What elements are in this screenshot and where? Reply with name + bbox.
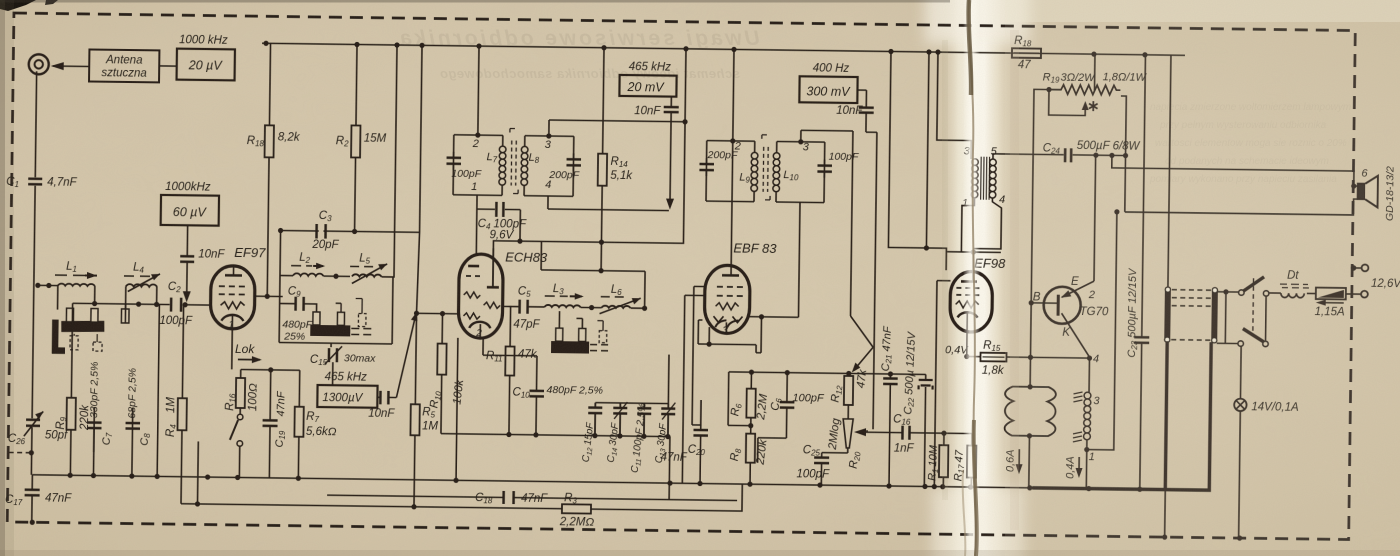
ECH83 grid line to L3: [503, 305, 519, 307]
variable capacitor C15: [330, 343, 332, 347]
fuse 1,15A: [1316, 288, 1346, 300]
capacitor C8: [131, 423, 134, 476]
crease band under schematic: [938, 0, 1018, 556]
padder black rod: [551, 341, 589, 353]
right page slightly lighter: [1005, 0, 1400, 556]
EF97 plate feed vertical with R18a: [267, 157, 269, 296]
vibrator block left bar: [1164, 288, 1171, 341]
capacitor 10nF (465kHz): [664, 107, 679, 112]
capacitor C9: [280, 302, 295, 304]
EF98 left stubs: [934, 281, 950, 487]
R18b feed corner down to block: [1168, 55, 1171, 287]
ECH83 cathode vertical to bus: [456, 338, 458, 480]
soft shading left of crease: [942, 40, 948, 500]
resistor R5: [410, 404, 419, 435]
capacitor C21: [889, 374, 891, 377]
output transformer windings: [971, 159, 978, 198]
IF2 core dashed lines: [763, 147, 768, 192]
Lok line: [241, 368, 300, 371]
winding L8: [521, 146, 528, 185]
generator box 300mV: [813, 62, 850, 74]
coil L1: [38, 284, 58, 286]
IF transformer 2 tank right: [776, 141, 825, 202]
IF1 pin4 line down and right: [548, 196, 669, 211]
capacitor C19: [269, 370, 272, 419]
resistor R11: [509, 307, 512, 347]
top right lighter band: [1000, 0, 1400, 22]
choke Dt: [1269, 292, 1281, 294]
node 4 down to filter choke: [1088, 358, 1090, 392]
R9 hang from grid line: [71, 303, 72, 397]
capacitor 100pF (IF1 left): [446, 158, 461, 164]
speaker: [1358, 184, 1366, 200]
AVC node between R6 R8: [750, 418, 752, 434]
thick right part of ground bus: [1032, 340, 1211, 490]
transformer core lines: [981, 157, 990, 200]
resistor R10: [441, 314, 443, 344]
IF transformer 1 tank left: [453, 135, 503, 196]
L4 right lead down to bus: [157, 304, 159, 476]
dashed slug right: [358, 314, 366, 327]
EBF83 right diode wire to IF2 pin4: [749, 316, 798, 319]
C3 line: [281, 231, 420, 233]
generator box 20uV: [177, 49, 235, 81]
capacitor C6: [786, 373, 788, 401]
crease shadow line: [969, 0, 976, 556]
EF97 plate wire right: [255, 295, 283, 297]
rheostat R19 with 1.8ohm: [1046, 87, 1051, 92]
capacitor C7: [92, 422, 95, 475]
transformer pin5 line with C24: [993, 154, 1064, 160]
tube EF97: [210, 266, 255, 330]
IF2 pin2 feed from rail: [733, 49, 734, 140]
capacitor C20: [700, 400, 702, 429]
capacitor C4: [476, 209, 520, 241]
resistor R4: [182, 305, 183, 398]
R3 value label: [559, 492, 595, 528]
capacitor C22 electrolytic: [925, 374, 927, 378]
EF98 plate line: [946, 251, 1000, 254]
variable capacitor C26: [26, 420, 40, 426]
capacitor 200pF (IF1 right): [566, 159, 581, 165]
trimmer C11: [643, 403, 645, 436]
oscillator tank loop: [279, 276, 393, 344]
generator box 1300uV: [325, 371, 368, 384]
capacitor C10: [536, 356, 538, 390]
generator box 60uV: [161, 195, 219, 226]
winding L9: [751, 152, 758, 191]
secondary bottom line with R3: [181, 477, 742, 511]
ferrite L-bar: [52, 320, 65, 354]
resistor R7: [298, 370, 300, 406]
top dark hairline: [0, 0, 950, 3]
transistor TG70: [1043, 287, 1080, 324]
10nF coupling from 1300uV box: [377, 396, 396, 398]
dashed link to border: [9, 451, 31, 453]
IF1 pin2 to rail feed: [478, 46, 479, 135]
wire box to generator box: [159, 65, 176, 67]
capacitor 10nF below 60uV box: [186, 225, 188, 255]
black page corner marks top-left: [0, 0, 36, 11]
L4 slug: [121, 309, 129, 323]
trimmer C12: [588, 403, 602, 436]
base chain vertical: [1030, 89, 1049, 387]
trimmer top line: [595, 354, 669, 404]
IF transformer 2 tank left: [706, 141, 755, 202]
capacitor 10nF (400Hz): [857, 90, 867, 132]
EBF83 internals: [722, 274, 739, 277]
EF97 cathode down to Lok line: [231, 329, 234, 369]
transformer pin4 lead down to EF98 plate line: [973, 198, 1001, 249]
L6 right up to 9.6V line area: [644, 271, 646, 308]
resistor R18b 47: [1012, 48, 1041, 58]
C18 line: [327, 495, 737, 500]
resistor R16: [240, 369, 242, 377]
osc grid node: [414, 311, 419, 316]
tube ECH83: [458, 254, 503, 339]
IF1 core dashed lines: [511, 141, 516, 186]
B+ rail: [262, 43, 1185, 55]
resistor R9: [66, 398, 75, 430]
capacitor C5: [520, 300, 528, 314]
resistor R17: [944, 433, 972, 445]
osc ferrite rod: [310, 325, 350, 337]
ECH83 internals: [468, 265, 479, 268]
L2 label arrow: [291, 265, 312, 267]
resistor R8: [746, 434, 755, 463]
potentiometer R20 cone: [847, 405, 849, 419]
switch upper pole: [1217, 291, 1238, 293]
wire rail to tank right: [393, 45, 397, 277]
arrow to antenna jack: [53, 65, 89, 67]
diagonal to ECH83 grid with arrow: [396, 318, 415, 398]
trimmer C14: [619, 403, 621, 436]
collector to node 4: [1061, 313, 1090, 357]
box Antena sztuczna: [89, 49, 159, 82]
trimmer C13: [667, 404, 669, 437]
antenna jack: [29, 54, 49, 74]
filter choke winding: [1084, 392, 1091, 440]
L5 label dashes and trimmer arrow: [350, 265, 373, 267]
L1 label and arrow: [55, 274, 85, 276]
capacitor 200pF (IF2 left): [699, 164, 714, 170]
0,4A label arrow: [1064, 456, 1076, 479]
vibrator block right bar: [1211, 289, 1218, 342]
main ground bus: [32, 475, 1032, 488]
wavy ballast resistor: [1005, 387, 1056, 437]
switch pole link: [1265, 296, 1268, 340]
ghost bleed-through text top middle: [400, 27, 760, 81]
bottom edge shading: [0, 550, 1400, 556]
9.6V screen line: [493, 46, 686, 289]
block thick legs to bus: [1165, 341, 1167, 489]
coil former slugs on rod: [66, 308, 73, 322]
coil L3: [545, 305, 581, 308]
IF1 pin3 top feed: [549, 120, 685, 138]
winding L10: [773, 153, 780, 192]
resistor R2: [356, 44, 357, 125]
0,6A label arrow: [1004, 449, 1016, 472]
ferrite rod: [61, 321, 104, 332]
resistor R6: [750, 372, 752, 388]
capacitor 100pF (IF2 right): [817, 166, 832, 172]
tube EBF83: [704, 265, 750, 334]
dashed slugs below rod: [70, 336, 78, 350]
lamp: [1234, 399, 1247, 412]
coil L4: [125, 286, 127, 310]
winding L7: [499, 146, 506, 185]
R12 top line: [729, 372, 926, 375]
R20 wiper arrow from C16 line: [866, 430, 868, 432]
block dashed lines: [1171, 290, 1211, 341]
speaker line 2: [1125, 196, 1358, 215]
block corner circles: [1165, 287, 1218, 343]
capacitor C17: [31, 475, 33, 489]
12.6V terminals: [1361, 291, 1368, 298]
R19 wiper loop: [1049, 90, 1086, 116]
EBF83 top lead up to IF2 pin2: [731, 141, 733, 265]
wire to choke bottom: [1087, 211, 1117, 449]
speaker line 1: [1112, 155, 1359, 186]
capacitor C16: [898, 432, 944, 435]
L1 down leads: [58, 286, 95, 310]
L4 label, dashes, trimmer arrow: [124, 275, 150, 277]
C23 feed vertical: [1140, 55, 1146, 489]
osc feed vertical down to tank: [279, 231, 282, 276]
coil L5: [352, 274, 382, 277]
capacitor C18: [504, 491, 514, 504]
capacitor C25: [821, 453, 823, 457]
asterisk: [1089, 101, 1098, 111]
capacitor C2: [171, 298, 181, 312]
diagonal arrow to R12: [850, 316, 874, 369]
resistor R3: [562, 504, 591, 513]
osc coil assembly slugs: [313, 312, 320, 325]
tube EF98: [950, 271, 993, 332]
switch lower pole: [1217, 342, 1238, 344]
EF97 grid line: [73, 303, 212, 305]
generator box 20mV: [629, 61, 672, 74]
L6 label dashes diag arrow: [601, 296, 624, 298]
capacitor C1: [35, 71, 36, 177]
L3 label arrow: [545, 295, 568, 297]
EBF83 left side wires: [682, 286, 705, 483]
EF98 internals: [972, 252, 974, 281]
resistor R1: [941, 431, 946, 436]
trimmer bank bottom line: [441, 434, 670, 437]
R15 line from EF98 cathode to node 4: [967, 355, 980, 357]
resistor R14: [603, 48, 604, 154]
capacitor C3: [316, 224, 325, 239]
EBF83 lower detector loop: [698, 316, 761, 353]
padder coil assembly below L3: [559, 311, 582, 328]
rail feeds near crease: [888, 51, 949, 251]
EF97 internals: [225, 274, 242, 277]
left page edge shading: [0, 0, 5, 556]
coil L2: [280, 275, 293, 277]
B+ rail junction dots: [263, 41, 1147, 58]
transformer pin1 lead: [961, 198, 974, 252]
capacitor C23: [1134, 337, 1149, 343]
IF2 pin3 top line to detector vertical: [799, 130, 853, 316]
coil L6: [602, 306, 631, 308]
ground bus junction dots: [68, 473, 1092, 492]
crease fold line overlay: [963, 0, 980, 556]
resistor R12: [848, 373, 850, 375]
emitter with arrow: [1062, 281, 1094, 298]
Lok switch contacts: [239, 408, 241, 414]
IF1 pin1 down to ECH83 top: [475, 195, 478, 254]
lamp feed: [1239, 346, 1242, 399]
injection arrow 465kHz/20mV: [670, 97, 671, 202]
resistor R15: [980, 353, 1006, 362]
switch gang dashed link: [1252, 278, 1255, 334]
choke core marks: [1073, 392, 1083, 442]
IF transformer 1 tank right: [524, 136, 574, 197]
1.8 ohm right loop down: [1119, 96, 1126, 212]
IF2 pin4 down to diode line: [798, 202, 800, 317]
Lok switch label and arrow: [235, 342, 256, 356]
